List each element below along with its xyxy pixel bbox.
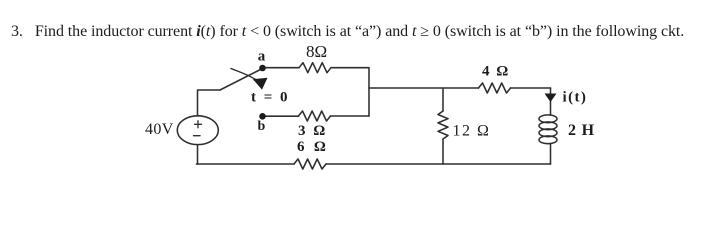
svg-text:12 Ω: 12 Ω xyxy=(453,123,491,140)
svg-text:t = 0: t = 0 xyxy=(251,90,290,106)
svg-text:6 Ω: 6 Ω xyxy=(297,139,329,155)
svg-text:i(t): i(t) xyxy=(563,90,588,106)
svg-text:b: b xyxy=(258,119,266,134)
svg-text:40V: 40V xyxy=(145,121,174,138)
svg-text:2 H: 2 H xyxy=(568,122,595,139)
svg-text:4 Ω: 4 Ω xyxy=(482,64,510,80)
svg-text:3 Ω: 3 Ω xyxy=(298,123,327,139)
svg-text:8Ω: 8Ω xyxy=(306,42,327,61)
svg-text:a: a xyxy=(258,49,266,65)
